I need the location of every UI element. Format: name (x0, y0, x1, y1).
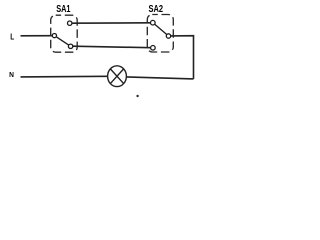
svg-text:SA2: SA2 (149, 4, 164, 15)
switch SA2 common terminal (166, 34, 170, 38)
switch SA1 blade (56, 37, 68, 45)
wire (126, 77, 193, 79)
wire (21, 75, 108, 78)
switch SA2 enclosure (147, 15, 173, 53)
wire (72, 22, 151, 24)
switch SA1 enclosure (51, 15, 77, 52)
switch SA1 lower terminal (68, 44, 72, 48)
wire (73, 46, 151, 48)
switch SA1 common terminal (52, 34, 56, 38)
switch SA2 blade (155, 24, 167, 34)
svg-text:L: L (10, 32, 14, 42)
switch SA2 lower terminal (151, 46, 156, 51)
svg-text:SA1: SA1 (56, 4, 71, 15)
dot (136, 95, 138, 97)
switch SA1 upper terminal (68, 21, 72, 25)
wire (171, 36, 194, 79)
switch SA2 upper terminal (151, 20, 156, 25)
wire (21, 35, 53, 37)
lamp EL (108, 66, 127, 87)
svg-text:N: N (9, 70, 14, 79)
